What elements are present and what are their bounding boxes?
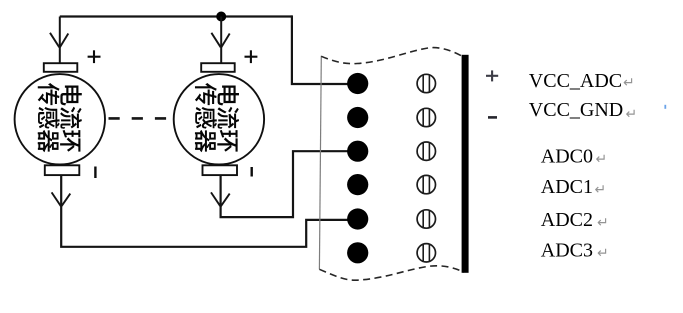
svg-text:↵: ↵ <box>623 76 635 91</box>
terminal block J1: pin 5 (ADC2) screw head <box>417 210 435 228</box>
terminal block J1: pin 4 (ADC1) solder dot <box>347 174 368 195</box>
sensor U1: bottom terminal rect <box>45 165 80 175</box>
sensor U2: - polarity label (rotated minus) <box>250 167 252 177</box>
sensor U2: top terminal rect <box>201 63 235 72</box>
terminal block J1: pin 5 (ADC2) solder dot <box>347 208 368 229</box>
sensor U1: body circle <box>15 74 105 164</box>
sensor U1: top terminal rect <box>44 63 78 72</box>
sensor U1: arrow into top terminal <box>50 33 68 48</box>
svg-text:ADC0: ADC0 <box>541 145 593 167</box>
svg-text:↵: ↵ <box>597 216 609 231</box>
sensor U2: bottom lead arrow <box>211 192 230 206</box>
svg-text:ADC3: ADC3 <box>541 240 593 262</box>
svg-text:ADC1: ADC1 <box>541 176 593 198</box>
sensor U1: + polarity label <box>88 50 101 63</box>
terminal block J1: pin 6 (ADC3) solder dot <box>347 242 368 263</box>
sensor U2: bottom terminal rect <box>203 165 238 175</box>
svg-text:↵: ↵ <box>597 247 609 262</box>
svg-text:ADC2: ADC2 <box>541 209 593 231</box>
svg-text:VCC_ADC: VCC_ADC <box>529 70 622 92</box>
svg-text:VCC_GND: VCC_GND <box>529 99 623 121</box>
sensor U2: + polarity label <box>245 50 258 63</box>
wire: sensor1 top lead <box>59 17 61 64</box>
label: - for VCC_GND <box>488 116 497 119</box>
svg-text:↵: ↵ <box>595 183 607 198</box>
wire: sensor1 bottom lead to ADC2 pin 5 <box>61 175 356 247</box>
wire: sensor2 bottom lead to ADC0 pin 3 <box>221 151 357 217</box>
terminal block J1: pin 3 (ADC0) solder dot <box>347 141 368 162</box>
sensor U1: - polarity label (rotated minus) <box>94 167 96 179</box>
sensor U1: label 电流环传感器 (rotated) <box>38 83 82 152</box>
terminal block J1: bottom torn border (dashed wave) <box>319 266 464 280</box>
sensor U2: body circle <box>174 74 264 164</box>
sensor U1: bottom lead arrow <box>52 192 71 206</box>
terminal block J1: left edge <box>319 56 321 269</box>
terminal block J1: pin 2 (VCC_GND) solder dot <box>347 107 368 128</box>
terminal block J1: pin 4 (ADC1) screw head <box>417 175 435 193</box>
terminal block J1: pin 2 (VCC_GND) screw head <box>417 108 435 126</box>
terminal block J1: pin 3 (ADC0) screw head <box>417 142 435 160</box>
svg-text:↵: ↵ <box>626 108 638 123</box>
label: + for VCC_ADC <box>486 70 498 81</box>
svg-text:↵: ↵ <box>596 153 608 168</box>
wire: drop to VCC_ADC pin 1 <box>292 15 357 84</box>
wire: sensor2 top lead <box>220 17 222 64</box>
terminal block J1: pin 1 (VCC_ADC) solder dot <box>347 73 368 94</box>
sensor U2: label 电流环传感器 (rotated) <box>195 83 239 152</box>
terminal block J1: contact bar <box>462 55 469 273</box>
sensor U2: arrow into top terminal <box>211 33 229 48</box>
text cursor artifact <box>664 105 666 109</box>
node: junction dot on top rail <box>216 12 226 22</box>
wire: top rail from sensor1 to drop at right <box>60 15 292 17</box>
dashed link between sensor1 and sensor2 <box>109 117 169 120</box>
terminal block J1: top torn border (dashed wave) <box>321 48 467 64</box>
terminal block J1: pin 1 (VCC_ADC) screw head <box>417 74 435 92</box>
terminal block J1: pin 6 (ADC3) screw head <box>417 244 435 262</box>
